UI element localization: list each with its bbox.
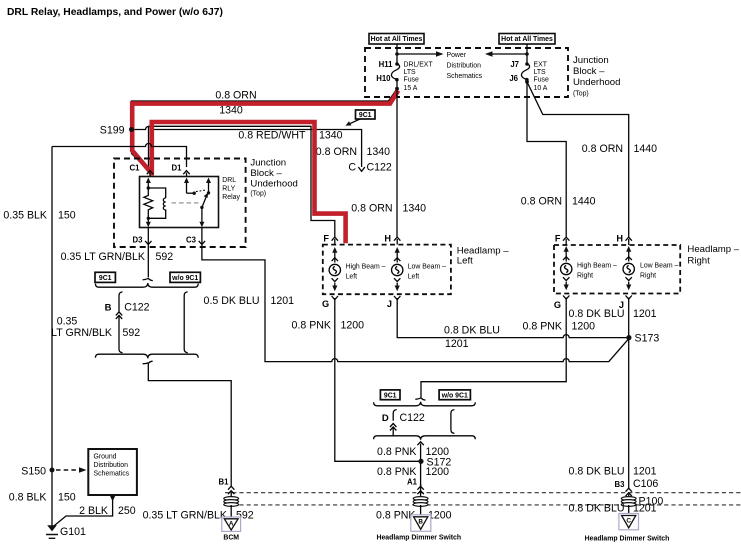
pin H (headlamp-right)	[626, 237, 632, 241]
svg-text:Low Beam –: Low Beam –	[640, 263, 678, 270]
headlamp-right dashed box	[554, 245, 680, 294]
bulkhead dashed boundary lines	[225, 492, 741, 494]
fuse EXT LTS 10A	[525, 62, 529, 66]
w/o 9C1 option box (lower)	[439, 390, 470, 400]
svg-text:0.8 ORN: 0.8 ORN	[351, 203, 392, 215]
svg-text:Right: Right	[577, 272, 593, 279]
red highlight path 1: fuse to relay C1	[132, 91, 398, 174]
svg-text:Underhood: Underhood	[573, 77, 620, 88]
relay mechanical link (gray dashed)	[172, 202, 199, 204]
svg-text:G: G	[554, 300, 561, 310]
svg-text:A1: A1	[407, 477, 418, 486]
svg-text:0.8 PNK: 0.8 PNK	[376, 510, 415, 522]
relay coil pin D3 arrow	[147, 218, 149, 224]
headlamp dimmer switch triangle connector B	[411, 515, 431, 532]
svg-text:F: F	[555, 233, 561, 243]
DRL relay box	[140, 177, 219, 228]
svg-text:Block –: Block –	[250, 168, 282, 179]
svg-text:C106: C106	[633, 478, 658, 490]
dashed arrow S150 to ground distribution box	[56, 469, 80, 471]
wire J-right down through S173 to B3: 0.8 DK BLU 1201	[628, 298, 630, 489]
svg-text:0.35: 0.35	[57, 315, 78, 327]
svg-text:H: H	[384, 233, 391, 243]
connector C122 w/o 9C1 stub (lower right)	[451, 410, 455, 434]
pin F (headlamp-right)	[563, 237, 569, 241]
BCM triangle connector A	[222, 517, 241, 531]
junction block (relay) dashed box	[114, 159, 246, 248]
svg-text:0.8 ORN: 0.8 ORN	[316, 146, 357, 158]
lower brace top	[374, 402, 476, 406]
svg-text:Hot at All Times: Hot at All Times	[501, 36, 553, 43]
svg-text:Distribution: Distribution	[447, 63, 482, 70]
svg-text:DRL/EXT: DRL/EXT	[404, 62, 434, 69]
svg-text:1201: 1201	[633, 466, 657, 478]
svg-text:Headlamp Dimmer Switch: Headlamp Dimmer Switch	[585, 536, 670, 543]
svg-text:DRL Relay, Headlamps, and Powe: DRL Relay, Headlamps, and Power (w/o 6J7…	[7, 7, 223, 18]
svg-text:H10: H10	[376, 74, 391, 83]
svg-text:LTS: LTS	[534, 69, 547, 76]
splice S199	[129, 127, 134, 132]
wire to S172 and down to A1: 0.8 PNK 1200	[420, 444, 422, 487]
wire 0.8 RED/WHT 1340: relay C1 riser to headlamp-left F (black under red)	[149, 126, 335, 237]
arrow up below lower brace	[417, 442, 423, 446]
svg-text:D3: D3	[133, 235, 144, 244]
pin F (headlamp-left)	[332, 237, 338, 241]
svg-text:15 A: 15 A	[404, 85, 418, 92]
svg-text:Right: Right	[687, 256, 710, 267]
w/o 9C1 option box (upper)	[170, 272, 200, 282]
svg-text:0.8 DK BLU: 0.8 DK BLU	[569, 502, 625, 514]
svg-text:Fuse: Fuse	[534, 77, 549, 84]
svg-text:Ground: Ground	[94, 454, 117, 461]
svg-text:250: 250	[118, 505, 136, 517]
svg-text:Distribution: Distribution	[94, 462, 129, 469]
svg-text:0.5 DK BLU: 0.5 DK BLU	[204, 295, 260, 307]
relay coil pin C1 arrow	[147, 180, 149, 188]
svg-text:592: 592	[123, 327, 141, 339]
wire fuse2 to H headlamp-right: 0.8 ORN 1440	[527, 82, 629, 237]
9C1 pointer box with arrow (top)	[356, 110, 376, 119]
svg-text:0.8 PNK: 0.8 PNK	[292, 319, 331, 331]
arrow down from ground box + wire 2 BLK 250	[110, 496, 116, 502]
wire J-left to S173: 0.8 DK BLU 1201	[397, 298, 629, 338]
svg-text:RLY: RLY	[222, 186, 235, 193]
low beam left bulb	[396, 251, 398, 263]
svg-text:C122: C122	[400, 412, 425, 424]
svg-text:(Top): (Top)	[573, 91, 589, 98]
svg-text:H11: H11	[379, 60, 394, 69]
svg-text:0.8 DK BLU: 0.8 DK BLU	[444, 324, 500, 336]
svg-text:0.8 DK BLU: 0.8 DK BLU	[569, 308, 625, 320]
pin H (headlamp-left)	[394, 237, 400, 241]
arrow to power distribution (left pointing)	[491, 53, 527, 55]
upper brace top	[95, 283, 198, 287]
svg-text:0.35 BLK: 0.35 BLK	[3, 209, 47, 221]
svg-text:1201: 1201	[445, 338, 469, 350]
svg-text:150: 150	[58, 492, 76, 504]
svg-text:Left: Left	[408, 273, 420, 280]
upper brace bottom	[95, 354, 198, 358]
svg-text:0.35 LT GRN/BLK: 0.35 LT GRN/BLK	[61, 251, 145, 263]
svg-text:1200: 1200	[426, 466, 450, 478]
relay switch pin D1 arrow	[186, 180, 188, 193]
svg-text:1440: 1440	[634, 143, 658, 155]
svg-text:C: C	[348, 162, 356, 174]
svg-text:1340: 1340	[403, 203, 427, 215]
svg-text:Left: Left	[457, 256, 473, 267]
splice S173	[626, 335, 631, 340]
svg-text:1340: 1340	[367, 146, 391, 158]
svg-text:Relay: Relay	[222, 194, 240, 201]
svg-text:S150: S150	[21, 465, 46, 477]
svg-text:9C1: 9C1	[99, 275, 112, 282]
connector C122 pin B stub	[119, 292, 123, 312]
wire S199 to C122 pin C: 0.8 ORN 1340	[134, 127, 362, 168]
svg-text:0.8 ORN: 0.8 ORN	[521, 195, 562, 207]
headlamp-left dashed box	[323, 245, 451, 295]
svg-text:B1: B1	[219, 477, 230, 486]
pin G (headlamp-left)	[332, 296, 338, 300]
relay switch lever	[202, 196, 207, 207]
svg-text:D: D	[382, 413, 389, 424]
connector C122 pin D stub	[393, 410, 397, 421]
svg-text:w/o 9C1: w/o 9C1	[441, 393, 468, 400]
svg-text:w/o 9C1: w/o 9C1	[171, 275, 198, 282]
svg-text:C122: C122	[367, 162, 392, 174]
svg-text:S199: S199	[100, 124, 125, 136]
svg-text:0.8 PNK: 0.8 PNK	[377, 446, 416, 458]
svg-text:C1: C1	[130, 163, 141, 172]
svg-text:(Top): (Top)	[250, 191, 266, 198]
svg-text:1440: 1440	[572, 195, 596, 207]
svg-text:0.8 PNK: 0.8 PNK	[523, 320, 562, 332]
svg-text:1200: 1200	[341, 319, 365, 331]
svg-text:10 A: 10 A	[534, 85, 548, 92]
svg-text:Low Beam –: Low Beam –	[408, 264, 446, 271]
wire D3 down: 0.35 LT GRN/BLK 592	[147, 228, 149, 278]
resistor (relay)	[144, 188, 153, 218]
high beam left bulb	[334, 251, 336, 263]
relay switch pin C3 arrow	[201, 207, 203, 224]
svg-text:LT GRN/BLK: LT GRN/BLK	[51, 327, 112, 339]
arrow to power distribution schematics	[397, 53, 437, 55]
pin G (headlamp-right)	[563, 296, 569, 300]
svg-text:Schematics: Schematics	[94, 471, 130, 478]
svg-text:Block –: Block –	[573, 66, 605, 77]
svg-text:Left: Left	[346, 273, 358, 280]
wire ground 0.35 BLK 150: left rail to relay D1	[52, 144, 187, 168]
svg-text:Right: Right	[640, 272, 656, 279]
svg-text:B3: B3	[615, 480, 626, 489]
lower brace bottom	[374, 436, 476, 440]
hot at all times box 2	[499, 34, 555, 45]
svg-text:9C1: 9C1	[359, 112, 372, 119]
pin C3 chevron	[199, 241, 205, 245]
ground distribution schematics box	[88, 449, 137, 495]
svg-text:Junction: Junction	[250, 158, 286, 169]
svg-text:0.8 ORN: 0.8 ORN	[215, 90, 256, 102]
svg-text:Hot at All Times: Hot at All Times	[371, 36, 423, 43]
svg-text:1200: 1200	[428, 510, 452, 522]
relay coil top rail	[148, 188, 165, 198]
relay switch contact dashed	[196, 190, 206, 192]
svg-text:1201: 1201	[633, 502, 657, 514]
pin D3 chevron	[145, 241, 151, 245]
svg-text:1340: 1340	[319, 130, 343, 142]
node arrow junction fuse2	[525, 52, 529, 56]
svg-text:0.8 DK BLU: 0.8 DK BLU	[569, 466, 625, 478]
pin J (headlamp-right)	[626, 296, 632, 300]
svg-text:DRL: DRL	[222, 177, 236, 184]
svg-text:Underhood: Underhood	[250, 179, 297, 190]
svg-text:B: B	[105, 303, 112, 314]
svg-text:2 BLK: 2 BLK	[79, 505, 108, 517]
svg-text:C: C	[626, 517, 631, 524]
relay switch pivot pin arrow	[208, 180, 210, 193]
svg-text:592: 592	[156, 251, 174, 263]
svg-text:C122: C122	[124, 302, 149, 314]
wire hot2 to fuse J7	[526, 44, 528, 64]
svg-text:Headlamp Dimmer Switch: Headlamp Dimmer Switch	[376, 535, 461, 542]
svg-text:0.8 ORN: 0.8 ORN	[582, 143, 623, 155]
splice S150	[50, 468, 55, 473]
svg-text:D1: D1	[172, 163, 183, 172]
svg-text:EXT: EXT	[534, 62, 548, 69]
svg-text:Junction: Junction	[573, 55, 609, 66]
svg-text:Schematics: Schematics	[447, 73, 483, 80]
svg-text:1200: 1200	[572, 320, 596, 332]
hook at wire end into lower brace	[415, 398, 425, 400]
svg-text:G: G	[322, 299, 329, 309]
svg-text:Fuse: Fuse	[404, 77, 419, 84]
pin J (headlamp-left)	[394, 296, 400, 300]
svg-text:High Beam –: High Beam –	[577, 263, 617, 270]
high beam right bulb	[565, 250, 567, 262]
svg-text:9C1: 9C1	[384, 393, 397, 400]
svg-text:LTS: LTS	[404, 69, 417, 76]
svg-text:Power: Power	[447, 52, 467, 59]
low beam right bulb	[628, 250, 630, 262]
junction block underhood (top) dashed box	[365, 48, 568, 97]
pin C1 chevron	[147, 171, 153, 175]
pin D1 chevron	[183, 171, 189, 175]
wire G-right down, left, to lower brace arrow: 0.8 PNK 1200	[421, 298, 566, 398]
connector C122 w/o 9C1 stub (upper right)	[184, 292, 188, 353]
hot at all times box 1	[369, 34, 424, 45]
inductor coil (relay)	[148, 198, 165, 218]
red highlight path 2: relay C1 to headlamp-left F	[152, 122, 346, 243]
hook below upper bottom brace, wire to B1	[143, 361, 153, 364]
node arrow junction fuse1	[395, 52, 399, 56]
svg-text:G101: G101	[60, 526, 86, 538]
connector C122 pin C chevron	[358, 167, 365, 171]
9C1 option box (lower)	[380, 390, 400, 400]
svg-text:1201: 1201	[633, 308, 657, 320]
splice S172	[418, 459, 423, 464]
double chevron on D branch	[390, 424, 396, 428]
hook at wire end into upper brace	[143, 278, 153, 280]
svg-text:J7: J7	[510, 60, 519, 69]
9C1 option box (upper)	[95, 272, 115, 282]
svg-text:S173: S173	[635, 333, 660, 345]
svg-text:150: 150	[58, 209, 76, 221]
wire G-left down to S172: 0.8 PNK 1200	[335, 298, 422, 461]
svg-text:0.8 BLK: 0.8 BLK	[9, 492, 47, 504]
fuse DRL/EXT LTS 15A	[395, 62, 399, 66]
svg-text:J: J	[387, 299, 392, 309]
left ground rail down to S150/G101	[51, 147, 53, 528]
wire C3 to 0.5 DK BLU 1201 to S173	[202, 228, 628, 362]
svg-text:0.8 RED/WHT: 0.8 RED/WHT	[238, 130, 306, 142]
svg-text:0.35 LT GRN/BLK: 0.35 LT GRN/BLK	[143, 510, 227, 522]
headlamp dimmer switch triangle connector C	[619, 514, 639, 530]
svg-text:1340: 1340	[219, 105, 243, 117]
svg-text:1201: 1201	[271, 295, 295, 307]
wire fuse2 to F headlamp-right: 0.8 ORN 1440	[527, 82, 566, 237]
wire fuse1 to headlamp-left H: 0.8 ORN 1340	[396, 89, 398, 237]
svg-text:F: F	[323, 233, 329, 243]
svg-text:High Beam –: High Beam –	[346, 264, 386, 271]
wire 0.8 ORN 1340: fuse1 to S199 to relay C1 (black under red)	[132, 89, 398, 172]
svg-text:B: B	[418, 519, 423, 526]
wire hot1 to fuse H11	[396, 44, 398, 64]
svg-text:A: A	[229, 521, 234, 528]
svg-text:Headlamp –: Headlamp –	[687, 244, 739, 255]
svg-text:J6: J6	[509, 74, 518, 83]
svg-text:H: H	[616, 233, 623, 243]
ground G101	[47, 525, 57, 531]
double chevron on B branch	[116, 312, 122, 316]
svg-text:C3: C3	[186, 235, 197, 244]
svg-text:BCM: BCM	[223, 535, 239, 542]
